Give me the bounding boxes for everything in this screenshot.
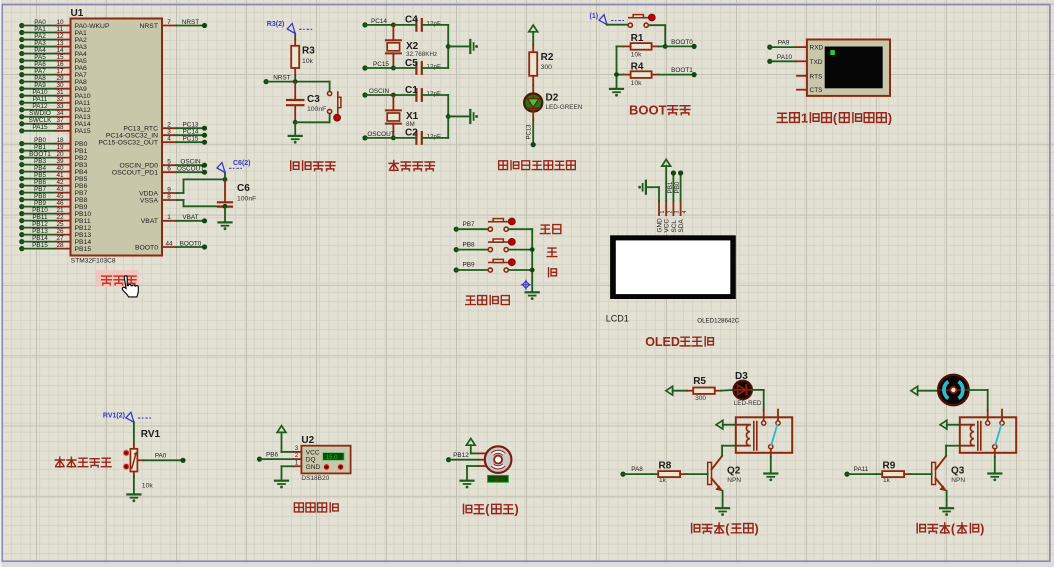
wire fan to relay <box>969 390 988 411</box>
svg-text:33: 33 <box>56 103 64 110</box>
svg-text:PA1: PA1 <box>34 26 46 33</box>
resistor R8 1k <box>652 460 708 484</box>
label 测温模块 (temperature module) <box>294 503 338 512</box>
svg-text:BOOT0: BOOT0 <box>180 240 202 247</box>
svg-text:PA8: PA8 <box>75 79 88 86</box>
transistor Q2 NPN <box>708 446 742 508</box>
U1 left pin 39 net PB3 <box>19 158 87 169</box>
OLED VCC wire + power <box>665 166 667 201</box>
svg-text:PA0: PA0 <box>155 453 167 460</box>
U1 right pin 3 net PC14 <box>106 129 207 140</box>
svg-text:2: 2 <box>167 122 171 129</box>
ground crystal <box>470 110 478 123</box>
resistor R1 10k <box>617 33 666 58</box>
voltage probe C6(2) <box>217 160 251 179</box>
U1 left pin 19 net PB1 <box>19 144 87 155</box>
svg-text:PB1: PB1 <box>34 144 47 151</box>
svg-text:34: 34 <box>56 110 64 117</box>
svg-text:10: 10 <box>56 19 64 26</box>
svg-text:4: 4 <box>167 136 171 143</box>
label 继电器(加热) <box>692 522 759 536</box>
node PA0 wire from wiper <box>137 453 185 463</box>
svg-text:PA7: PA7 <box>34 68 46 75</box>
svg-text:SDA: SDA <box>678 219 685 233</box>
fan motor <box>918 375 969 405</box>
svg-text:PA7: PA7 <box>75 72 88 79</box>
svg-text:43: 43 <box>56 186 64 193</box>
BOOT left rail <box>614 46 619 88</box>
U1 left pin 41 net PB5 <box>19 172 87 183</box>
svg-text:C1: C1 <box>405 85 418 96</box>
U1 right pin 5 net OSCIN <box>119 159 207 170</box>
U1 right pin 7 net NRST <box>139 19 207 30</box>
svg-text:PB8: PB8 <box>34 193 47 200</box>
svg-text:PB10: PB10 <box>75 211 92 218</box>
servo display <box>488 475 509 482</box>
node PB6 wire pin 2 <box>257 452 302 462</box>
svg-text:PB4: PB4 <box>34 165 47 172</box>
svg-text:46: 46 <box>56 200 64 207</box>
RV1 up/down buttons <box>123 450 129 456</box>
svg-text:PB9: PB9 <box>75 204 88 211</box>
U1 right pin 6 net OSCOUT <box>112 166 207 177</box>
BOOT button <box>607 14 665 46</box>
OLED display LCD1 OLED128642C <box>606 235 740 324</box>
svg-text:10k: 10k <box>631 80 643 87</box>
potentiometer RV1 10k <box>130 422 160 493</box>
svg-text:BOOT0: BOOT0 <box>135 244 158 251</box>
servo ground wire <box>467 466 478 480</box>
svg-text:OSCOUT_PD1: OSCOUT_PD1 <box>112 170 158 177</box>
U2 buttons <box>323 464 329 470</box>
svg-text:32: 32 <box>56 96 64 103</box>
U1 left pin 15 net PA5 <box>19 54 87 65</box>
svg-text:GND: GND <box>306 464 321 471</box>
node PA10 wire <box>767 54 807 64</box>
capacitor C2 12pF <box>405 128 441 144</box>
U1 left pin 18 net PB0 <box>19 137 87 148</box>
label 复位电路 (reset circuit) <box>291 161 335 171</box>
U1 left pin 33 net PA12 <box>19 103 91 114</box>
svg-text:PB15: PB15 <box>32 242 48 249</box>
power arrow servo <box>466 439 475 446</box>
reset button <box>328 82 341 123</box>
crystal ground rail <box>446 25 470 68</box>
label 继电器(制冷) <box>917 522 984 536</box>
OLED pin stubs 1-4 <box>659 201 666 215</box>
svg-text:BOOT0: BOOT0 <box>671 39 693 46</box>
U2 DS18B20 box <box>301 435 350 482</box>
label 舵机(杯盖) <box>464 503 519 517</box>
svg-text:100nF: 100nF <box>237 195 256 202</box>
U1 left pin 43 net PB7 <box>19 186 87 197</box>
svg-text:7: 7 <box>167 19 171 26</box>
svg-text:PB2: PB2 <box>75 155 88 162</box>
svg-text:PA15: PA15 <box>75 128 91 135</box>
svg-text:OSCIN_PD0: OSCIN_PD0 <box>119 163 158 170</box>
ground emitter <box>716 508 729 516</box>
svg-text:PA10: PA10 <box>32 89 48 96</box>
microcontroller U1 STM32F103C8 <box>71 8 163 264</box>
svg-text:9: 9 <box>167 186 171 193</box>
svg-text:12pF: 12pF <box>427 133 442 140</box>
svg-text:C5: C5 <box>405 58 418 69</box>
svg-text:PA3: PA3 <box>75 44 88 51</box>
svg-text:25: 25 <box>56 221 64 228</box>
svg-text:PB6: PB6 <box>75 183 88 190</box>
svg-text:U1: U1 <box>71 8 84 19</box>
power arrow for D2 <box>529 25 538 32</box>
U1 left pin 28 net PB15 <box>19 242 91 253</box>
svg-text:PB0: PB0 <box>75 141 88 148</box>
U2 GND wire pin 1 <box>282 460 302 479</box>
capacitor C4 12pF <box>405 15 441 31</box>
svg-text:PA11: PA11 <box>854 466 869 473</box>
node PB9 wire + key button <box>454 259 533 273</box>
relay coil <box>736 422 757 450</box>
svg-text:(1): (1) <box>590 13 599 20</box>
svg-text:PB0: PB0 <box>674 181 681 193</box>
ground emitter <box>940 508 953 516</box>
node PB8 wire + key button <box>454 239 533 253</box>
svg-text:40: 40 <box>56 165 64 172</box>
svg-text:PB11: PB11 <box>32 214 48 221</box>
svg-text:PA9: PA9 <box>778 40 790 47</box>
label 晶振电路 (crystal circuit) <box>389 161 434 171</box>
svg-text:PA3: PA3 <box>34 40 46 47</box>
svg-text:31: 31 <box>56 89 64 96</box>
U1 left pin 30 net PA9 <box>19 82 87 93</box>
svg-text:1: 1 <box>801 110 808 125</box>
U1 right pin 8 VSSA wire <box>140 193 225 206</box>
transistor Q3 NPN <box>932 446 966 508</box>
svg-text:RV1: RV1 <box>141 429 161 440</box>
node PC14 wire <box>362 18 416 28</box>
virtual terminal <box>797 40 890 96</box>
svg-text:): ) <box>514 503 518 517</box>
svg-text:10k: 10k <box>302 58 314 65</box>
node NRST wire <box>264 74 330 84</box>
svg-text:OSCOUT: OSCOUT <box>367 131 394 138</box>
power arrow relay coil <box>716 420 723 429</box>
svg-text:VBAT: VBAT <box>141 218 158 225</box>
U1 left pin 20 net BOOT1 <box>19 151 87 162</box>
capacitor C1 12pF <box>405 85 441 101</box>
svg-text:4: 4 <box>682 211 688 214</box>
node PB0 wire (SDA) <box>674 170 683 200</box>
label 水质值调节 (water quality adjust) <box>55 457 111 467</box>
node BOOT1 <box>659 67 697 77</box>
svg-text:SWDIO: SWDIO <box>29 110 51 117</box>
svg-text:VSSA: VSSA <box>140 197 159 204</box>
bottom rail wire <box>293 120 330 135</box>
svg-text:PC15: PC15 <box>373 61 389 68</box>
relay box Q3 <box>960 417 1016 453</box>
svg-text:R1: R1 <box>631 33 644 44</box>
node PC15 wire <box>362 61 416 71</box>
svg-text:C6(2): C6(2) <box>233 160 251 167</box>
svg-text:29: 29 <box>56 75 64 82</box>
svg-text:C4: C4 <box>405 15 418 26</box>
svg-text:10k: 10k <box>142 482 154 489</box>
svg-text:NRST: NRST <box>273 74 290 81</box>
svg-text:PA11: PA11 <box>33 96 48 103</box>
svg-text:GND: GND <box>656 218 663 233</box>
svg-text:18: 18 <box>56 137 64 144</box>
resistor R4 10k <box>617 61 659 86</box>
svg-text:CTS: CTS <box>810 87 824 94</box>
node OSCIN wire <box>362 88 416 98</box>
svg-text:PC14: PC14 <box>371 18 387 25</box>
label 程序运行指示灯 (run indicator) <box>499 161 576 170</box>
svg-text:OSCIN: OSCIN <box>369 88 390 95</box>
svg-text:PB15: PB15 <box>75 246 92 253</box>
svg-text:RXD: RXD <box>810 45 824 52</box>
svg-text:C2: C2 <box>405 128 418 139</box>
servo motor (cup lid) <box>471 445 512 473</box>
node PB12 wire <box>446 452 478 462</box>
svg-text:NRST: NRST <box>182 19 199 26</box>
svg-text:16: 16 <box>56 61 64 68</box>
svg-text:PA2: PA2 <box>75 37 88 44</box>
svg-text:PC14: PC14 <box>183 129 199 136</box>
svg-text:LED-RED: LED-RED <box>734 400 762 407</box>
svg-text:PA12: PA12 <box>32 103 48 110</box>
svg-text:OSCIN: OSCIN <box>180 159 201 166</box>
node PA8 <box>620 466 652 477</box>
svg-text:TXD: TXD <box>810 59 823 66</box>
svg-text:12pF: 12pF <box>427 64 442 71</box>
svg-text:PB5: PB5 <box>75 176 88 183</box>
svg-text:12pF: 12pF <box>427 91 442 98</box>
resistor R3 10k <box>291 39 315 76</box>
power arrow heating <box>666 386 673 395</box>
svg-text:PB1: PB1 <box>667 181 674 193</box>
svg-text:PC15-OSC32_OUT: PC15-OSC32_OUT <box>98 140 158 147</box>
label OLED显示屏 <box>645 335 713 349</box>
svg-text:42: 42 <box>56 179 64 186</box>
U1 left pin 25 net PB12 <box>19 221 91 232</box>
ground U2 <box>275 481 288 489</box>
svg-text:VDDA: VDDA <box>139 190 158 197</box>
ground BOOT <box>610 89 623 97</box>
svg-text:27: 27 <box>56 235 64 242</box>
svg-text:PB13: PB13 <box>32 228 48 235</box>
svg-text:NPN: NPN <box>727 477 741 484</box>
svg-text:300: 300 <box>695 395 706 402</box>
relay contact pins <box>986 410 1005 457</box>
U1 left pin 12 net PA2 <box>19 33 87 44</box>
svg-text:PB8: PB8 <box>462 241 475 248</box>
U1 left pin 10 net PA0 <box>19 19 110 30</box>
svg-text:VCC: VCC <box>306 449 320 456</box>
relay blade <box>995 425 1001 445</box>
svg-text:PA10: PA10 <box>75 93 91 100</box>
ground reset <box>289 136 302 144</box>
svg-text:PA9: PA9 <box>75 86 88 93</box>
svg-text:1k: 1k <box>659 477 667 484</box>
svg-text:RV1(2): RV1(2) <box>103 413 125 420</box>
svg-text:PA5: PA5 <box>34 54 46 61</box>
svg-text:38: 38 <box>56 124 64 131</box>
svg-text:OLED: OLED <box>645 335 680 349</box>
svg-text:VBAT: VBAT <box>182 214 198 221</box>
LED D2 LED-GREEN <box>524 85 583 112</box>
svg-text:14: 14 <box>56 47 64 54</box>
svg-text:PB4: PB4 <box>75 169 88 176</box>
svg-text:R5: R5 <box>693 376 706 387</box>
svg-text:C6: C6 <box>237 183 250 194</box>
svg-text:R2: R2 <box>541 52 554 63</box>
U1 left pin 42 net PB6 <box>19 179 87 190</box>
svg-text:C3: C3 <box>307 94 320 105</box>
svg-text:Q3: Q3 <box>951 465 965 476</box>
U1 left pin 31 net PA10 <box>19 89 91 100</box>
ground RV1 <box>127 494 140 502</box>
U2 display 15.0 <box>323 453 345 461</box>
svg-text:PA6: PA6 <box>75 65 88 72</box>
svg-text:PA4: PA4 <box>75 51 88 58</box>
svg-text:10k: 10k <box>631 52 643 59</box>
svg-text:PA1: PA1 <box>75 30 88 37</box>
ground crystal <box>470 40 478 53</box>
svg-text:PB1: PB1 <box>75 148 88 155</box>
svg-text:8: 8 <box>167 193 171 200</box>
svg-text:): ) <box>755 522 759 536</box>
mouse cursor hand <box>122 276 138 297</box>
voltage probe RV1(2) <box>103 412 151 422</box>
svg-text:44: 44 <box>165 240 173 247</box>
svg-text:PA2: PA2 <box>34 33 46 40</box>
U1 left pin 21 net PB10 <box>19 207 91 218</box>
svg-text:R3(2): R3(2) <box>267 21 285 28</box>
svg-text:22: 22 <box>56 214 64 221</box>
U1 right pin 44 net BOOT0 <box>135 240 207 251</box>
svg-text:PB7: PB7 <box>462 221 475 228</box>
crystal X1 8M <box>386 95 419 138</box>
label 主芯片 (main chip) highlighted <box>96 270 139 287</box>
U1 left pin 46 net PB9 <box>19 200 87 211</box>
svg-text:3: 3 <box>167 129 171 136</box>
svg-text:15.0: 15.0 <box>326 455 338 461</box>
svg-text:PC13_RTC: PC13_RTC <box>123 126 158 133</box>
node BOOT0 <box>663 39 697 49</box>
U1 left pin 11 net PA1 <box>19 26 87 37</box>
svg-text:PA8: PA8 <box>34 75 46 82</box>
svg-text:PB14: PB14 <box>75 239 92 246</box>
svg-text:NPN: NPN <box>951 477 965 484</box>
svg-text:19: 19 <box>56 144 64 151</box>
svg-text:(: ( <box>833 110 838 125</box>
label BOOT电路 <box>629 102 690 117</box>
svg-text:RTS: RTS <box>810 73 824 80</box>
relay blade <box>771 425 777 445</box>
svg-text:PC13: PC13 <box>526 124 532 140</box>
svg-text:SWCLK: SWCLK <box>29 117 52 124</box>
svg-text:LED-GREEN: LED-GREEN <box>546 104 583 111</box>
svg-text:BOOT1: BOOT1 <box>671 67 693 74</box>
U1 left pin 45 net PB8 <box>19 193 87 204</box>
wire D3 to relay <box>752 390 764 411</box>
svg-text:15: 15 <box>56 54 64 61</box>
svg-text:SCL: SCL <box>671 220 678 233</box>
U1 left pin 29 net PA8 <box>19 75 87 86</box>
svg-text:PB12: PB12 <box>32 221 48 228</box>
svg-text:DS18B20: DS18B20 <box>301 475 329 482</box>
svg-text:28: 28 <box>56 242 64 249</box>
power arrow cooling <box>911 386 918 395</box>
resistor R5 300 <box>673 376 722 402</box>
node PB7 wire + key button <box>454 218 533 232</box>
U1 left pin 13 net PA3 <box>19 40 87 51</box>
U1 left pin 27 net PB14 <box>19 235 91 246</box>
svg-text:+88.8: +88.8 <box>492 477 504 482</box>
keys right rail <box>530 229 535 291</box>
svg-text:R9: R9 <box>883 460 896 471</box>
svg-text:D2: D2 <box>546 92 559 103</box>
ground keys <box>526 292 539 300</box>
svg-text:PC13: PC13 <box>183 122 199 129</box>
svg-text:BOOT: BOOT <box>629 102 667 117</box>
svg-text:PB11: PB11 <box>75 218 91 225</box>
voltage probe (1) <box>590 13 625 25</box>
svg-text:21: 21 <box>56 207 64 214</box>
svg-text:PB9: PB9 <box>462 262 475 269</box>
capacitor C6 100nF <box>218 177 256 222</box>
svg-text:R4: R4 <box>631 61 644 72</box>
svg-text:41: 41 <box>56 172 64 179</box>
svg-text:Q2: Q2 <box>727 465 741 476</box>
U1 right pin 1 net VBAT <box>141 214 207 225</box>
U1 left pin 40 net PB4 <box>19 165 87 176</box>
label 独立按键 (independent keys) <box>466 296 510 305</box>
power arrow U2 <box>277 426 286 433</box>
svg-text:12pF: 12pF <box>427 20 442 27</box>
svg-text:PB3: PB3 <box>75 162 88 169</box>
svg-text:PB9: PB9 <box>34 200 47 207</box>
svg-text:300: 300 <box>541 64 553 71</box>
U1 left pin 17 net PA7 <box>19 68 87 79</box>
svg-text:PA11: PA11 <box>75 100 91 107</box>
svg-text:PA8: PA8 <box>631 466 643 473</box>
U2 VCC wire pin 3 <box>282 432 302 452</box>
svg-text:PB3: PB3 <box>34 158 47 165</box>
label 串口1窗口(模拟语音) <box>777 110 892 125</box>
svg-text:U2: U2 <box>301 435 314 446</box>
svg-text:PA14: PA14 <box>75 121 91 128</box>
svg-text:PB7: PB7 <box>34 186 47 193</box>
crystal X2 32.768KHz <box>386 25 437 68</box>
svg-text:1: 1 <box>167 214 171 221</box>
svg-text:26: 26 <box>56 228 64 235</box>
svg-text:39: 39 <box>56 158 64 165</box>
svg-text:D3: D3 <box>735 371 748 382</box>
svg-text:OLED128642C: OLED128642C <box>697 317 739 324</box>
svg-text:PA10: PA10 <box>777 54 793 61</box>
svg-text:PA4: PA4 <box>34 47 46 54</box>
node PA11 <box>844 466 876 477</box>
svg-text:R3: R3 <box>302 46 315 57</box>
node PB1 wire (SCL) <box>667 170 676 200</box>
LED D3 LED-RED <box>721 371 762 407</box>
svg-text:PB8: PB8 <box>75 197 88 204</box>
label 设置 <box>540 225 560 234</box>
relay coil <box>960 422 981 450</box>
svg-text:PB5: PB5 <box>34 172 47 179</box>
U1 left pin 34 net SWDIO <box>19 110 91 121</box>
power arrow relay coil <box>940 420 947 429</box>
svg-text:6: 6 <box>167 166 171 173</box>
